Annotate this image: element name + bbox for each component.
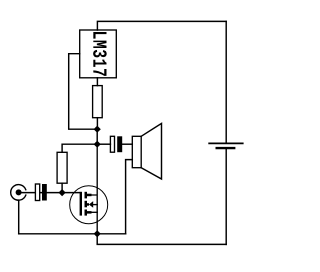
wire node down to output node [96,129,98,144]
transistor Q1 drain stub [87,194,92,197]
wire jack sleeve to ground [18,200,20,234]
wire C2 to speaker [122,143,132,145]
input jack J1 ring [11,185,26,201]
resistor R1 [93,86,103,118]
junction output node [94,141,101,148]
wire speaker return tap [126,160,133,234]
input jack J1 tip contact [16,189,22,195]
wire U1 adjust pin to left rail [69,54,98,130]
wire bottom rail lower segment [97,234,226,245]
wire battery - down right side [225,149,227,244]
transistor Q1 body stub [87,203,89,206]
transistor Q1 channel segment bottom [85,210,88,216]
speaker SP1 cone [141,123,161,179]
speaker SP1 driver body [132,136,141,167]
label LM317 (rotated) [93,32,107,76]
junction gate node [59,189,66,196]
wire R1 bottom lead [96,118,98,130]
wire Q1 source stub link [92,211,98,213]
capacitor C1 input negative plate [42,184,47,201]
wire V+ top rail [97,21,226,30]
transistor Q1 channel segment middle [85,201,88,208]
wire jack tip through C1 to gate [19,192,80,194]
transistor Q1 body diode arrow [89,201,93,208]
capacitor C1 input positive plate [35,184,39,201]
resistor R2 gate bias [57,152,67,183]
wire Q1 drain to output node (through circle) [92,144,98,234]
transistor Q1 source stub [87,211,92,214]
junction source/ground node [94,230,101,237]
battery B1 negative plate [217,147,235,149]
transistor Q1 gate bar [80,192,82,216]
capacitor C2 positive plate [110,136,114,152]
wire bottom ground rail upper segment [19,233,126,235]
wire Q1 body to source rail [93,204,97,206]
battery B1 positive plate [209,142,243,144]
transistor Q1 channel segment top [85,192,88,199]
capacitor C2 negative plate [117,136,122,152]
wire right rail to battery + [225,21,227,142]
wire U1 output pin down [96,78,98,86]
wire R2 bottom lead to gate node [61,183,63,192]
wire output node to R2 top [62,144,97,152]
transistor Q1 envelope circle [70,186,108,224]
junction node drain/feedback [94,126,101,133]
wire output node to C2 [97,143,110,145]
regulator U1 LM317 body [80,30,117,78]
